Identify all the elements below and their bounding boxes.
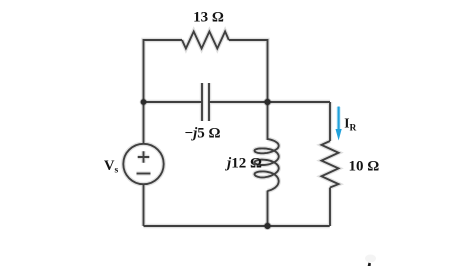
node C junction dot — [264, 223, 270, 229]
svg-text:Vs: Vs — [104, 158, 118, 176]
svg-text:j12 Ω: j12 Ω — [225, 156, 262, 172]
current arrow IR — [336, 107, 342, 141]
svg-text:10 Ω: 10 Ω — [349, 158, 380, 174]
circuit strokes — [123, 32, 338, 227]
artifact mark bottom edge — [368, 263, 371, 266]
node B junction dot — [264, 99, 270, 105]
svg-text:−j5 Ω: −j5 Ω — [185, 125, 221, 141]
svg-text:IR: IR — [344, 116, 356, 134]
svg-text:13 Ω: 13 Ω — [193, 9, 224, 25]
circuit strokes soft underlay — [123, 32, 338, 227]
faint smudge — [365, 255, 376, 263]
node A junction dot — [141, 99, 147, 105]
